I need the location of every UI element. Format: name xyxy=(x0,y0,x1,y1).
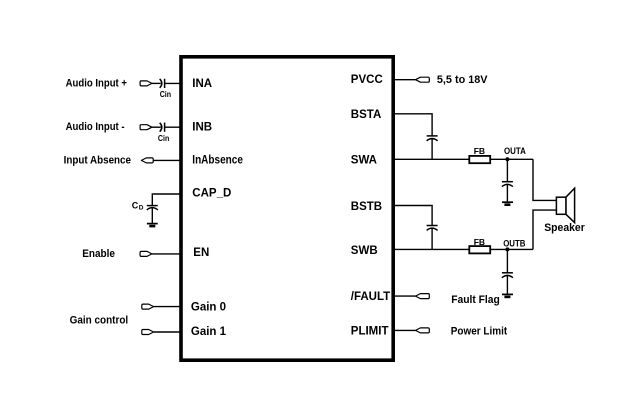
terminal Gain 0 xyxy=(142,304,154,309)
svg-text:Cin: Cin xyxy=(158,133,169,143)
svg-text:FB: FB xyxy=(474,146,485,156)
terminal power limit xyxy=(416,328,430,333)
terminal Audio Input - xyxy=(140,125,152,130)
capacitor Cd xyxy=(147,206,158,210)
svg-text:SWB: SWB xyxy=(351,245,378,257)
wire xyxy=(431,139,433,159)
svg-text:EN: EN xyxy=(193,247,209,259)
terminal fault flag xyxy=(416,294,430,299)
ground (output B) xyxy=(502,294,513,297)
wire OUTA to speaker xyxy=(533,159,556,200)
wire xyxy=(152,253,181,255)
wire xyxy=(153,159,181,161)
capacitor bootstrap B xyxy=(427,226,438,231)
wire SWA to FB xyxy=(393,158,469,160)
wire OUTB node down xyxy=(506,249,508,272)
wire xyxy=(151,208,153,223)
svg-text:Speaker: Speaker xyxy=(544,222,585,234)
svg-text:Input Absence: Input Absence xyxy=(64,154,131,166)
svg-text:Audio Input +: Audio Input + xyxy=(66,77,127,89)
svg-text:FB: FB xyxy=(474,237,485,247)
svg-text:PLIMIT: PLIMIT xyxy=(351,326,389,338)
wire xyxy=(165,126,181,128)
wire xyxy=(154,306,181,308)
wire xyxy=(506,185,508,202)
capacitor Cin (INB row) xyxy=(160,123,165,132)
svg-text:C: C xyxy=(132,201,139,211)
svg-text:Cin: Cin xyxy=(160,89,171,99)
wire xyxy=(165,82,181,84)
capacitor bootstrap A xyxy=(427,136,438,141)
node OUTA junction xyxy=(505,157,509,161)
speaker LS1 xyxy=(556,188,574,222)
capacitor output A xyxy=(502,182,513,187)
terminal Audio Input + xyxy=(140,81,152,86)
svg-text:INB: INB xyxy=(192,122,212,134)
svg-text:Gain control: Gain control xyxy=(70,314,129,326)
wire OUTA node down xyxy=(506,159,508,181)
wire xyxy=(152,82,161,84)
node OUTB junction xyxy=(505,247,509,251)
wire xyxy=(393,79,415,81)
svg-text:D: D xyxy=(139,205,144,212)
IC U1 amplifier box xyxy=(181,57,393,360)
terminal Enable xyxy=(140,251,152,256)
capacitor Cin (INA row) xyxy=(160,79,165,88)
wire OUTB to speaker xyxy=(533,210,556,249)
wire FB to OUTA node and right xyxy=(490,158,533,160)
wire xyxy=(431,229,433,250)
ground (output A) xyxy=(502,202,513,205)
capacitor output B xyxy=(502,273,513,278)
svg-text:Gain 0: Gain 0 xyxy=(191,302,226,314)
terminal PVCC supply xyxy=(416,77,430,82)
svg-text:InAbsence: InAbsence xyxy=(192,155,243,167)
svg-text:Gain 1: Gain 1 xyxy=(191,326,227,338)
svg-text:CAP_D: CAP_D xyxy=(192,187,231,199)
wire xyxy=(154,331,181,333)
terminal Gain 1 xyxy=(142,330,154,335)
svg-text:PVCC: PVCC xyxy=(351,74,383,86)
svg-text:BSTB: BSTB xyxy=(351,201,382,213)
wire CAP_D xyxy=(152,194,181,205)
svg-text:OUTA: OUTA xyxy=(504,146,526,156)
ground (Cd) xyxy=(147,224,158,227)
svg-text:Audio Input -: Audio Input - xyxy=(66,121,125,133)
svg-text:BSTA: BSTA xyxy=(351,109,381,121)
terminal Input Absence xyxy=(141,158,153,163)
wire xyxy=(393,329,415,331)
svg-text:Fault Flag: Fault Flag xyxy=(451,294,500,306)
svg-text:Enable: Enable xyxy=(82,248,115,260)
svg-text:SWA: SWA xyxy=(351,155,377,167)
svg-text:/FAULT: /FAULT xyxy=(351,291,390,303)
wire FB to OUTB node and right xyxy=(490,248,533,250)
svg-text:5,5 to 18V: 5,5 to 18V xyxy=(437,74,488,86)
svg-text:INA: INA xyxy=(192,78,212,90)
wire xyxy=(506,276,508,294)
wire xyxy=(393,295,415,297)
ferrite bead FB (B) xyxy=(469,246,490,253)
svg-text:Power Limit: Power Limit xyxy=(451,326,508,338)
wire xyxy=(152,126,161,128)
ferrite bead FB (A) xyxy=(469,156,490,163)
wire BSTA to bootstrap cap A xyxy=(393,114,432,136)
svg-text:OUTB: OUTB xyxy=(503,238,526,248)
wire SWB to FB xyxy=(393,248,469,250)
wire BSTB to bootstrap cap B xyxy=(393,206,432,226)
